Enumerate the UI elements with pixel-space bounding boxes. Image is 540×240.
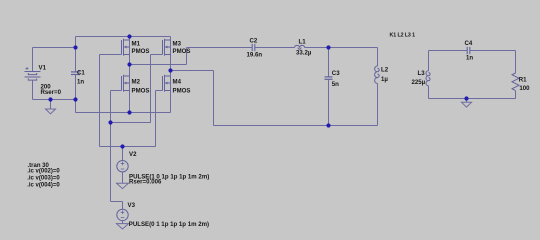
svg-text:.ic v(002)=0: .ic v(002)=0	[27, 168, 60, 174]
wire M4 gate	[156, 90, 163, 92]
inductor L1 (33.2u)	[295, 45, 305, 47]
wire V2 node	[100, 146, 156, 148]
svg-text:PMOS: PMOS	[173, 48, 191, 55]
capacitor C1 (1n)	[75, 37, 77, 72]
ground right	[466, 99, 468, 103]
wire net B (M3 drain / M4 source)	[171, 70, 214, 72]
ground V3	[117, 224, 129, 229]
wire M3-M4 drain-source column	[170, 37, 172, 113]
svg-text:V3: V3	[128, 202, 136, 209]
resistor R1 (100)	[515, 51, 517, 74]
svg-text:.ic v(003)=0: .ic v(003)=0	[27, 175, 60, 181]
svg-text:C1: C1	[77, 70, 85, 77]
svg-text:C2: C2	[250, 38, 258, 45]
svg-text:PMOS: PMOS	[132, 48, 150, 55]
capacitor C2 (19.6n)	[251, 44, 253, 51]
capacitor C3 (5n)	[328, 48, 330, 77]
wire V1 bottom	[33, 99, 76, 101]
transistor M3 (PMOS)	[162, 40, 164, 55]
svg-text:PMOS: PMOS	[132, 88, 150, 95]
svg-text:1n: 1n	[466, 55, 473, 62]
voltage source V1 (battery, 200V)	[32, 48, 34, 72]
wire M3 gate	[150, 55, 152, 123]
svg-text:M1: M1	[132, 41, 141, 48]
wire V1 top to node	[33, 47, 76, 49]
wire right loop bottom	[429, 98, 516, 100]
transistor M1 (PMOS)	[121, 40, 123, 55]
wire V2 top pin	[122, 147, 124, 161]
svg-text:V2: V2	[129, 151, 137, 158]
voltage source V3	[117, 209, 128, 220]
svg-text:5n: 5n	[332, 81, 339, 88]
transistor M4 (PMOS)	[162, 76, 164, 91]
wire net A (M1 drain / M2 source)	[130, 64, 187, 66]
svg-text:C4: C4	[465, 40, 473, 47]
svg-text:.ic v(004)=0: .ic v(004)=0	[27, 182, 60, 188]
svg-text:L2: L2	[381, 67, 389, 74]
svg-text:K1 L2 L3 1: K1 L2 L3 1	[390, 33, 416, 39]
svg-text:PMOS: PMOS	[173, 88, 191, 95]
svg-text:R1: R1	[519, 77, 527, 84]
svg-text:PULSE(0 1 1p 1p 1p 1m 2m): PULSE(0 1 1p 1p 1p 1m 2m)	[129, 221, 209, 228]
wire M1-M2 drain-source column	[129, 37, 131, 113]
inductor L3 (225u)	[428, 51, 430, 71]
svg-text:V1: V1	[39, 65, 47, 72]
wire M1 gate	[100, 54, 122, 56]
svg-text:100: 100	[519, 85, 530, 92]
svg-text:L1: L1	[299, 39, 307, 46]
wire M2-M3 gate link	[111, 122, 151, 124]
svg-text:Rser=0: Rser=0	[41, 89, 62, 96]
wire V3 feed	[110, 123, 112, 202]
svg-text:M2: M2	[132, 79, 141, 86]
ground main	[50, 100, 52, 110]
wire C2 to L1	[255, 47, 295, 49]
inductor L2 (1u)	[377, 48, 379, 67]
wire right loop top	[429, 50, 468, 52]
ground V2	[117, 183, 129, 188]
svg-text:C3: C3	[332, 70, 340, 77]
wire return A	[76, 112, 171, 114]
svg-text:225µ: 225µ	[412, 79, 426, 86]
wire top rail	[76, 36, 171, 38]
svg-text:L3: L3	[418, 70, 426, 77]
wire tank bottom	[214, 125, 378, 127]
svg-text:M4: M4	[173, 79, 182, 86]
transistor M2 (PMOS)	[121, 76, 123, 91]
svg-text:19.6n: 19.6n	[247, 52, 263, 59]
svg-text:Rser=0.006: Rser=0.006	[129, 179, 162, 186]
wire L1 to L2 corner	[305, 47, 378, 49]
junction dots	[73, 45, 77, 49]
svg-text:M3: M3	[173, 41, 182, 48]
wire M2 gate	[111, 90, 122, 92]
svg-text:1n: 1n	[77, 79, 84, 86]
capacitor C4 (1n)	[466, 47, 468, 54]
svg-text:33.2µ: 33.2µ	[296, 50, 312, 57]
svg-text:1µ: 1µ	[381, 76, 388, 83]
voltage source V2	[117, 161, 128, 172]
